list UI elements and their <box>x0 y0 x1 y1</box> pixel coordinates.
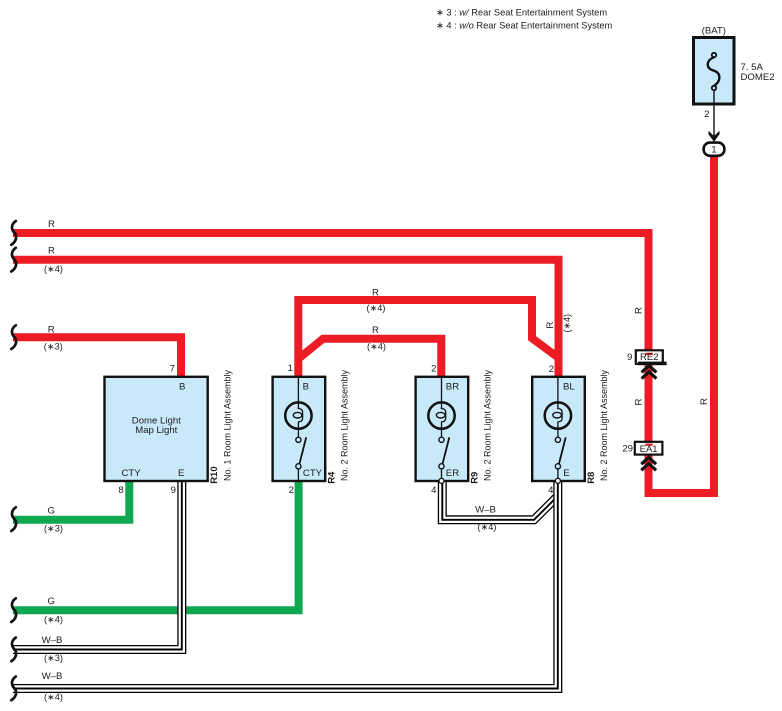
svg-text:Map Light: Map Light <box>135 425 177 436</box>
svg-text:RE2: RE2 <box>640 352 658 363</box>
svg-text:2: 2 <box>431 364 436 375</box>
svg-text:R: R <box>48 246 55 257</box>
svg-text:BR: BR <box>446 382 459 393</box>
svg-text:(∗4): (∗4) <box>562 314 572 333</box>
svg-text:(∗4): (∗4) <box>44 264 63 274</box>
svg-text:∗ 3 : w/ Rear Seat Entertainme: ∗ 3 : w/ Rear Seat Entertainment System <box>436 7 607 17</box>
svg-text:R8: R8 <box>586 472 597 484</box>
svg-text:R: R <box>545 322 556 329</box>
svg-text:No. 2 Room Light Assembly: No. 2 Room Light Assembly <box>483 369 493 481</box>
svg-text:∗ 4 : w/o Rear Seat Entertainm: ∗ 4 : w/o Rear Seat Entertainment System <box>436 20 613 30</box>
svg-text:4: 4 <box>548 485 554 496</box>
svg-text:8: 8 <box>118 485 123 496</box>
svg-text:E: E <box>178 468 184 479</box>
svg-text:R: R <box>48 219 55 230</box>
svg-text:1: 1 <box>288 363 293 374</box>
svg-text:R: R <box>372 325 379 336</box>
svg-text:No. 2 Room Light Assembly: No. 2 Room Light Assembly <box>599 369 609 481</box>
svg-text:R: R <box>48 325 55 336</box>
svg-text:R: R <box>372 287 379 298</box>
svg-text:B: B <box>179 382 185 393</box>
svg-text:(∗3): (∗3) <box>44 342 63 352</box>
svg-text:BL: BL <box>563 382 575 393</box>
svg-text:B: B <box>303 382 309 393</box>
svg-text:W–B: W–B <box>42 635 63 646</box>
svg-text:(∗4): (∗4) <box>478 522 497 532</box>
svg-text:9: 9 <box>627 352 632 363</box>
svg-text:9: 9 <box>171 485 176 496</box>
svg-text:G: G <box>48 506 55 517</box>
svg-text:(∗3): (∗3) <box>44 524 63 534</box>
svg-text:2: 2 <box>549 364 554 375</box>
svg-text:R9: R9 <box>470 472 481 484</box>
svg-text:2: 2 <box>289 485 294 496</box>
svg-text:7: 7 <box>170 364 175 375</box>
svg-text:1: 1 <box>711 145 716 155</box>
svg-text:ER: ER <box>446 468 459 479</box>
svg-text:DOME2: DOME2 <box>741 72 775 83</box>
svg-text:R10: R10 <box>209 466 220 483</box>
svg-text:(∗4): (∗4) <box>367 342 386 352</box>
svg-text:(∗4): (∗4) <box>44 614 63 624</box>
svg-text:(∗3): (∗3) <box>44 653 63 663</box>
svg-text:R: R <box>699 398 710 405</box>
svg-text:No. 2 Room Light Assembly: No. 2 Room Light Assembly <box>340 369 350 481</box>
svg-text:(BAT): (BAT) <box>702 26 726 37</box>
svg-text:4: 4 <box>431 485 437 496</box>
svg-text:R4: R4 <box>327 471 338 484</box>
svg-text:CTY: CTY <box>303 468 323 479</box>
svg-text:(∗4): (∗4) <box>367 303 386 313</box>
svg-text:E: E <box>563 468 569 479</box>
svg-text:G: G <box>48 596 55 607</box>
svg-text:29: 29 <box>622 444 633 455</box>
svg-text:(∗4): (∗4) <box>44 692 63 702</box>
svg-text:R: R <box>634 399 645 406</box>
svg-text:No. 1 Room Light Assembly: No. 1 Room Light Assembly <box>223 369 233 481</box>
svg-text:W–B: W–B <box>475 504 496 515</box>
svg-text:R: R <box>634 307 645 314</box>
svg-text:CTY: CTY <box>122 468 142 479</box>
svg-text:W–B: W–B <box>42 671 63 682</box>
svg-text:EA1: EA1 <box>640 444 658 455</box>
svg-text:2: 2 <box>704 109 709 120</box>
